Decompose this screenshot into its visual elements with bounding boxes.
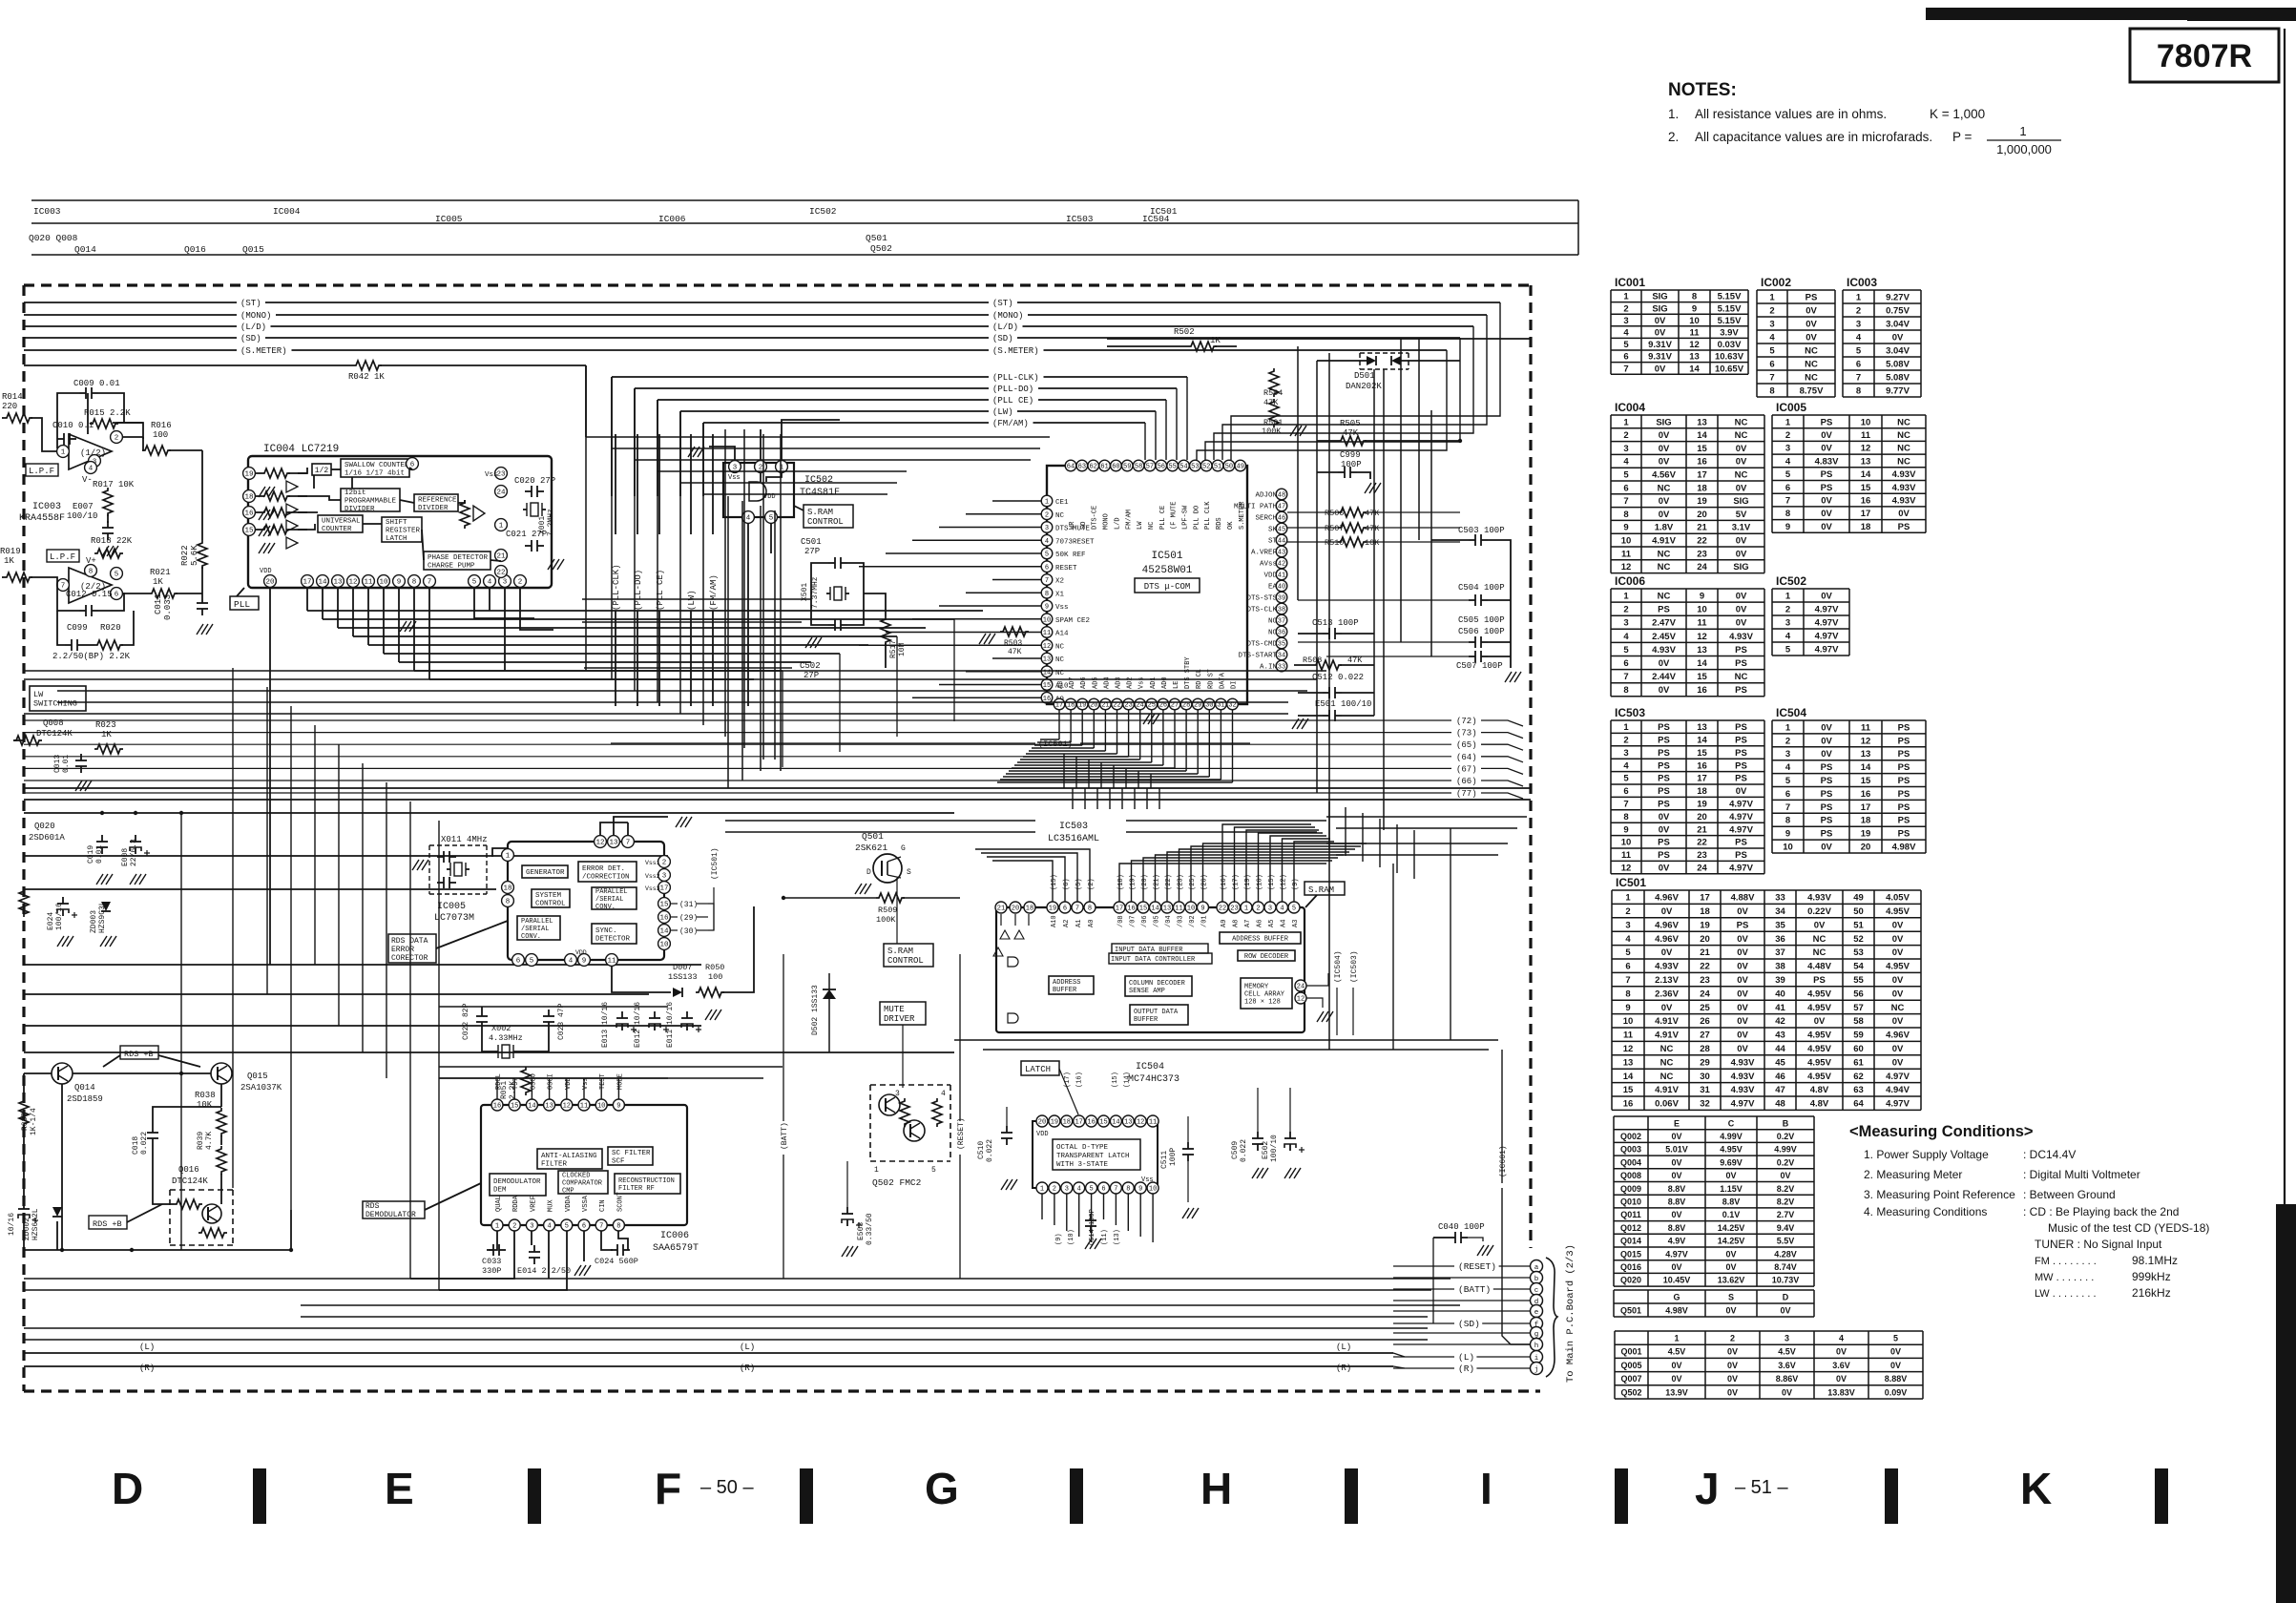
svg-text:12: 12 [1137,1119,1144,1127]
svg-text:1: 1 [506,853,511,861]
svg-text:5: 5 [769,515,774,523]
svg-text:DTS μ-COM: DTS μ-COM [1144,582,1191,592]
svg-text:18: 18 [244,494,253,502]
wire bus (PLL-DO) [635,387,989,389]
svg-text:0V: 0V [1892,989,1904,999]
svg-text:2: 2 [1623,605,1628,615]
svg-text:4.95V: 4.95V [1807,1044,1831,1054]
svg-text:3.9V: 3.9V [1720,328,1739,339]
svg-text:PS: PS [1898,829,1910,840]
svg-text:2: 2 [1785,736,1790,746]
L.P.F box 2 [47,550,79,562]
svg-text:9: 9 [1692,303,1697,314]
svg-text:(21): (21) [1154,874,1161,890]
svg-text:12: 12 [1043,643,1051,651]
svg-text:0V: 0V [1671,1132,1681,1141]
svg-text:22: 22 [1697,838,1707,848]
svg-text:NC: NC [1897,417,1910,427]
zone divider bar [253,1468,266,1524]
svg-text:REFERENCE: REFERENCE [418,496,457,504]
svg-text:0V: 0V [1655,316,1666,326]
svg-text:C040 100P: C040 100P [1438,1222,1485,1232]
main schematic dashed border [24,283,1531,286]
svg-text:L.P.F: L.P.F [29,467,54,476]
svg-text:10.65V: 10.65V [1715,364,1744,374]
svg-text:8.75V: 8.75V [1800,385,1824,396]
svg-text:19: 19 [1697,800,1707,810]
svg-text:0V: 0V [1737,947,1748,958]
svg-text:57: 57 [1853,1003,1864,1013]
svg-text:0V: 0V [1821,509,1832,519]
svg-text:E014 2.2/50: E014 2.2/50 [517,1266,571,1276]
svg-text:CE1: CE1 [1055,499,1069,507]
svg-text:10: 10 [1149,1186,1157,1194]
svg-text:0V: 0V [1821,444,1832,454]
svg-text:3.6V: 3.6V [1832,1361,1850,1370]
svg-text:16: 16 [1697,760,1707,771]
svg-text:16: 16 [1087,1119,1095,1127]
svg-text:4.96V: 4.96V [1655,893,1679,904]
svg-text:(12): (12) [1281,874,1288,890]
IC004 phase detector box [424,552,491,570]
wire vertical (PLL CE) [658,434,660,534]
svg-text:/06: /06 [1141,915,1149,927]
svg-text:0V: 0V [1736,618,1747,629]
svg-text:ADJON: ADJON [1255,492,1277,500]
svg-text:18: 18 [1697,483,1707,493]
IC004 reference divider box [414,494,458,511]
svg-text:0V: 0V [1661,947,1673,958]
svg-text:4.93V: 4.93V [1729,632,1753,642]
svg-text:(14): (14) [1124,1072,1132,1088]
svg-text:54: 54 [1179,464,1187,471]
svg-text:32: 32 [1700,1099,1710,1110]
svg-text:0V: 0V [1737,934,1748,945]
IC004 programmable divider box [341,489,400,511]
MUTE DRIVER box [880,1002,926,1025]
svg-text:3: 3 [1268,906,1272,913]
svg-text:A.VREF: A.VREF [1251,550,1277,557]
IC006 clocked comparator box [558,1171,608,1194]
svg-text:0V: 0V [1890,1361,1901,1370]
svg-text:1: 1 [1623,417,1629,427]
svg-text:4.97V: 4.97V [1815,644,1839,655]
svg-text:NC: NC [1805,372,1818,383]
svg-text:0.06V: 0.06V [1655,1099,1679,1110]
svg-text:V-: V- [82,475,93,485]
L.P.F box 1 [26,464,58,476]
svg-text:NC: NC [1148,522,1156,530]
svg-text:4.97V: 4.97V [1815,631,1839,641]
svg-text:5.15V: 5.15V [1718,303,1742,314]
svg-text:DRIVER: DRIVER [884,1014,915,1024]
svg-text:20: 20 [1012,906,1019,913]
svg-text:49: 49 [1237,464,1244,471]
svg-text:NC: NC [1897,430,1910,441]
svg-text:C033: C033 [482,1257,501,1266]
svg-text:A9: A9 [1221,920,1228,927]
svg-text:11: 11 [1621,549,1632,559]
svg-text:LW . . . . . . . .: LW . . . . . . . . [2035,1288,2097,1300]
svg-text:C009 0.01: C009 0.01 [73,379,120,388]
svg-text:12: 12 [1623,1044,1634,1054]
svg-text:6: 6 [1623,483,1628,493]
svg-text:LATCH: LATCH [386,535,407,543]
svg-text:L.P.F: L.P.F [50,552,75,562]
svg-text:PS: PS [1805,292,1818,302]
svg-text:55: 55 [1168,464,1176,471]
svg-text:5: 5 [1893,1334,1898,1343]
svg-text:50: 50 [1853,906,1864,917]
zone divider bar [2155,1468,2168,1524]
svg-text:IC503: IC503 [1066,214,1094,224]
svg-text:3: 3 [1785,617,1790,628]
wires Q014 Q015 verticals [23,1073,25,1099]
svg-text:5: 5 [115,572,119,579]
IC006 sc filter box [608,1147,653,1165]
svg-text:24: 24 [1697,562,1707,572]
svg-text:PS: PS [1735,850,1747,861]
svg-text:4.5V: 4.5V [1778,1347,1796,1357]
svg-text:(17): (17) [1233,874,1241,890]
svg-text:9: 9 [1625,1003,1630,1013]
svg-text:2: 2 [1769,305,1774,316]
svg-text:(PLL-CLK): (PLL-CLK) [612,564,621,611]
svg-text:43: 43 [1278,550,1285,557]
IC503 right pins [1295,980,1306,991]
svg-text:0V: 0V [1892,975,1904,986]
svg-text:21: 21 [496,553,506,561]
svg-text:PS: PS [1658,748,1670,759]
svg-text:E501 100/10: E501 100/10 [1315,699,1371,709]
svg-text:4.05V: 4.05V [1886,893,1910,904]
svg-text:100/16: 100/16 [55,903,64,930]
svg-text:0V: 0V [1737,1016,1748,1027]
svg-text:LPF-SW: LPF-SW [1182,505,1190,530]
svg-text:R017 10K: R017 10K [93,480,135,489]
svg-text:SYNC.: SYNC. [595,927,617,935]
svg-text:100: 100 [708,972,722,982]
svg-text:3: 3 [1785,444,1790,454]
svg-text:64: 64 [1853,1099,1864,1110]
svg-text:D: D [112,1464,143,1513]
svg-text:PS: PS [1898,789,1910,800]
svg-text:8: 8 [89,569,94,576]
svg-text:C: C [1728,1118,1735,1128]
S.RAM label box [1305,882,1345,895]
svg-text:4.97V: 4.97V [1815,617,1839,628]
svg-text:4.88V: 4.88V [1731,893,1755,904]
svg-text:12: 12 [1297,996,1305,1004]
svg-text:S.RAM: S.RAM [807,508,833,517]
connector i [1531,1351,1543,1364]
RDS +B box [120,1046,158,1059]
svg-text:MUTE: MUTE [884,1005,905,1014]
svg-text:4.93V: 4.93V [1731,1085,1755,1095]
svg-text:1/2: 1/2 [315,467,329,475]
svg-text:4: 4 [1045,538,1049,546]
svg-text:1/16 1/17 4bit: 1/16 1/17 4bit [344,469,405,477]
svg-text:3: 3 [503,579,508,587]
svg-text:8: 8 [616,1223,620,1231]
svg-text:2: 2 [1785,604,1790,614]
wire group IC501-IC503 vertical bundle [1072,788,1074,809]
svg-text:46: 46 [1775,1072,1785,1082]
wire bottom join [24,1249,291,1251]
svg-text:1: 1 [61,449,66,457]
svg-text:INPUT DATA CONTROLLER: INPUT DATA CONTROLLER [1111,956,1196,964]
svg-text:Q015: Q015 [242,244,264,255]
svg-text:6: 6 [516,958,521,966]
svg-text:LATCH: LATCH [1025,1065,1051,1074]
svg-text:(SD): (SD) [992,334,1013,343]
svg-text:VDD: VDD [1036,1131,1049,1138]
svg-text:15: 15 [1861,483,1871,493]
svg-text:8: 8 [1769,385,1774,396]
IC005 error det box [578,862,637,882]
svg-text:DEMODULATOR: DEMODULATOR [365,1211,416,1219]
svg-text:16: 16 [659,915,669,923]
connector brace [1546,1258,1557,1377]
svg-text:1: 1 [1785,722,1791,733]
svg-text:0V: 0V [1892,934,1904,945]
svg-text:R042 1K: R042 1K [348,372,385,382]
svg-text:36: 36 [1775,934,1785,945]
svg-text:2.7V: 2.7V [1777,1210,1795,1219]
IC004 swallow counter box [341,459,409,477]
svg-text:45: 45 [1278,527,1285,534]
svg-text:1K: 1K [153,577,163,587]
svg-text:CONTROL: CONTROL [535,900,566,907]
svg-text:61: 61 [1100,464,1108,471]
svg-text:A1: A1 [1075,920,1083,927]
svg-text:PS: PS [1737,920,1749,930]
svg-text:(66): (66) [1456,777,1477,786]
svg-text:8: 8 [1623,812,1628,822]
svg-text:4: 4 [1623,328,1629,339]
IC502 top wires [709,447,735,461]
svg-text:(SD): (SD) [240,334,261,343]
IC005 pins [502,849,514,862]
svg-text:X1: X1 [1055,591,1065,598]
svg-text:98.1MHz: 98.1MHz [2132,1254,2178,1267]
svg-text:11: 11 [1861,722,1871,733]
svg-text:60: 60 [1853,1044,1864,1054]
svg-text:4.91V: 4.91V [1655,1085,1679,1095]
svg-text:Q001: Q001 [1620,1347,1641,1357]
svg-text:SWALLOW COUNTER: SWALLOW COUNTER [344,462,409,469]
svg-text:21: 21 [1697,523,1707,533]
svg-text:7: 7 [1785,495,1790,506]
svg-text:13: 13 [1861,749,1871,760]
svg-text:IC004: IC004 [273,206,301,217]
svg-text:0V: 0V [1892,332,1904,343]
svg-text:Vss3: Vss3 [645,885,660,892]
svg-text:2SD601A: 2SD601A [29,833,65,843]
svg-text:20: 20 [265,579,275,587]
svg-text:4.93V: 4.93V [1655,962,1679,972]
svg-text:100P: 100P [1169,1148,1178,1166]
svg-text:13.83V: 13.83V [1827,1387,1855,1397]
svg-text:(22): (22) [1165,874,1173,890]
svg-text:20: 20 [1038,1119,1046,1127]
IC501 top pins 64-49 [1065,460,1076,471]
svg-text:8.8V: 8.8V [1668,1184,1686,1194]
svg-text:4.95V: 4.95V [1807,1072,1831,1082]
transistor Q016 [202,1204,221,1223]
IC501 left pin wires [992,500,1041,502]
svg-text:(F MUTE: (F MUTE [1171,502,1179,530]
svg-text:100K: 100K [876,915,896,925]
svg-text:0.75V: 0.75V [1886,305,1910,316]
svg-text:7: 7 [428,579,432,587]
svg-text:E012 10/16: E012 10/16 [634,1002,642,1048]
svg-text:1: 1 [1856,292,1862,302]
IC006 block outline [481,1105,687,1225]
svg-text:17: 17 [1861,509,1871,519]
svg-text:17: 17 [1697,470,1707,481]
svg-text:8: 8 [1785,816,1790,826]
svg-text:DTS-START: DTS-START [1238,653,1277,660]
svg-text:9: 9 [1045,604,1049,612]
IC503 input gates [1001,914,1029,926]
svg-text:11: 11 [1621,850,1632,861]
svg-text:4.91V: 4.91V [1655,1030,1679,1041]
IC005 parallel serial conv box A [592,887,637,909]
svg-text:1: 1 [1674,1334,1679,1343]
svg-text:C021 27P: C021 27P [506,530,547,539]
svg-text:(16): (16) [1221,874,1228,890]
wire mid9 [24,1051,954,1053]
svg-text:9: 9 [397,579,402,587]
zone divider bar [528,1468,541,1524]
svg-text:– 50 –: – 50 – [700,1477,754,1498]
svg-text:G: G [901,844,906,853]
svg-text:4: 4 [89,466,94,473]
svg-text:4.93V: 4.93V [1892,469,1916,480]
svg-text:9: 9 [1785,522,1790,532]
svg-text:R015 2.2K: R015 2.2K [84,408,131,418]
svg-text:4.28V: 4.28V [1774,1249,1797,1259]
svg-text:20: 20 [1697,510,1707,520]
svg-text:13: 13 [1623,1057,1634,1068]
svg-text:10: 10 [1621,838,1632,848]
svg-text:0V: 0V [1821,749,1832,760]
svg-text:0V: 0V [1659,864,1670,874]
svg-text:ADDRESS: ADDRESS [1053,979,1080,987]
zone divider bar [1885,1468,1898,1524]
svg-text:/08: /08 [1117,915,1125,927]
svg-text:4.95V: 4.95V [1886,962,1910,972]
svg-text:7: 7 [1623,800,1628,810]
svg-text:18: 18 [1063,1119,1071,1127]
svg-text:IC502: IC502 [809,206,837,217]
svg-text:0V: 0V [1821,591,1832,601]
svg-text:(R): (R) [1336,1364,1351,1373]
svg-text:SCF: SCF [612,1157,625,1165]
svg-text:D: D [1783,1292,1789,1301]
svg-text:Q020: Q020 [34,822,55,831]
svg-text:6: 6 [1785,789,1790,800]
svg-text:2. Measuring Meter: 2. Measuring Meter [1864,1168,1962,1181]
IC502 outline [723,463,794,517]
svg-text:Q005: Q005 [1620,1361,1641,1370]
svg-text:QUAL: QUAL [495,1196,503,1212]
svg-text:NC: NC [1735,417,1748,427]
svg-text:R505: R505 [1340,419,1361,428]
svg-text:PS: PS [1735,774,1747,784]
svg-text:R023: R023 [95,720,116,730]
svg-text:0V: 0V [1836,1374,1847,1384]
svg-text:1.8V: 1.8V [1655,523,1674,533]
IC004 left pins [243,468,256,480]
svg-text:0V: 0V [1727,1387,1738,1397]
svg-text:0V: 0V [1659,457,1670,468]
svg-text:0V: 0V [1821,495,1832,506]
svg-text:(FM/AM): (FM/AM) [992,419,1029,428]
svg-text:8.2V: 8.2V [1777,1197,1795,1206]
svg-text:RDS +B: RDS +B [93,1219,122,1229]
svg-text:48: 48 [1775,1099,1785,1110]
svg-text:7: 7 [1623,496,1628,507]
svg-text:C513 100P: C513 100P [1312,618,1359,628]
net labels (72)-(77) [24,719,1451,721]
wire mid5 [24,888,496,890]
svg-text:0V: 0V [1890,1347,1901,1357]
svg-text:41: 41 [1775,1003,1785,1013]
svg-text:A7: A7 [1244,920,1252,927]
svg-text:Q014: Q014 [74,1083,95,1093]
svg-text:8: 8 [1856,385,1861,396]
svg-text:44: 44 [1278,538,1285,546]
svg-text:0V: 0V [1736,483,1747,493]
svg-text:(65): (65) [1456,740,1477,750]
svg-text:RDCL: RDCL [495,1073,503,1090]
svg-text:NC: NC [1735,672,1748,682]
svg-text:100: 100 [153,430,168,440]
svg-text:A10: A10 [1051,915,1058,927]
wire bus (L/D) [24,325,237,327]
svg-text:4.97V: 4.97V [1729,864,1753,874]
svg-text:g: g [1534,1331,1539,1339]
svg-text:62: 62 [1089,464,1096,471]
svg-text:5.6K: 5.6K [190,545,199,566]
svg-text:45: 45 [1775,1057,1785,1068]
svg-text:PARALLEL: PARALLEL [521,918,553,926]
svg-text:2: 2 [1785,430,1790,441]
svg-text:FILTER: FILTER [541,1160,568,1168]
svg-text:D501: D501 [1354,371,1375,381]
index strip line B [31,222,1578,224]
svg-text:PROGRAMMABLE: PROGRAMMABLE [344,498,397,506]
svg-text:A8: A8 [1233,920,1241,927]
svg-text:E: E [1674,1118,1680,1128]
svg-text:19: 19 [1700,920,1710,930]
sheet number box 7807R [2130,29,2279,82]
svg-text:DIVIDER: DIVIDER [418,505,449,512]
svg-text:PHASE DETECTOR: PHASE DETECTOR [428,554,489,562]
svg-text:ZD003: ZD003 [90,910,98,933]
svg-text:0.09V: 0.09V [1885,1387,1908,1397]
svg-text:NC: NC [1055,643,1065,651]
svg-text:(15): (15) [1112,1072,1119,1088]
svg-text:(29): (29) [679,914,698,923]
svg-text:8.8V: 8.8V [1668,1223,1686,1233]
svg-text:C018: C018 [132,1136,140,1155]
svg-text:0.2V: 0.2V [1777,1132,1795,1141]
svg-text:17: 17 [1700,893,1710,904]
svg-text:0V: 0V [1892,1044,1904,1054]
